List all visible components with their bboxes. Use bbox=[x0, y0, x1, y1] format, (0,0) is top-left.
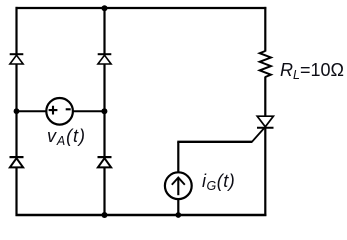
node dot bottom middle bbox=[102, 212, 108, 218]
wire current source stem bbox=[177, 142, 179, 215]
wire bottom rail bbox=[16, 214, 267, 217]
svg-text:iG(t): iG(t) bbox=[202, 171, 235, 193]
diode D4 bottom-middle triangle bbox=[98, 158, 111, 167]
diode D1 top-left triangle bbox=[10, 55, 23, 64]
voltage source vA circle bbox=[46, 98, 73, 125]
svg-text:RL=10Ω: RL=10Ω bbox=[280, 60, 344, 82]
node dot middle source row bbox=[101, 108, 107, 114]
voltage source plus mark bbox=[49, 106, 58, 115]
node dot bottom current source bbox=[175, 212, 181, 218]
diode D2 top-middle triangle bbox=[98, 55, 111, 64]
thyristor cathode bar bbox=[257, 127, 274, 129]
wire right rail upper (top corner to resistor) bbox=[264, 7, 266, 52]
voltage source minus mark bbox=[66, 108, 71, 110]
resistor RL zigzag bbox=[260, 51, 271, 77]
wire middle branch bbox=[103, 8, 105, 215]
diode D2 top-middle cathode bar bbox=[98, 53, 112, 55]
wire left rail bbox=[15, 7, 17, 216]
diode D4 bottom-middle cathode bar bbox=[98, 156, 112, 158]
thyristor SCR triangle bbox=[257, 116, 273, 127]
node dot left source row bbox=[14, 108, 20, 114]
wire source row (left rail to middle branch) bbox=[17, 110, 105, 112]
node dot top middle bbox=[102, 5, 108, 11]
current source arrow shaft bbox=[177, 178, 179, 196]
diode D3 bottom-left cathode bar bbox=[10, 156, 24, 158]
wire top rail bbox=[16, 7, 267, 9]
wire gate diagonal bbox=[252, 128, 265, 143]
current source iG circle bbox=[165, 172, 192, 199]
diode D3 bottom-left triangle bbox=[10, 158, 23, 167]
diode D1 top-left cathode bar bbox=[10, 53, 24, 55]
wire gate horizontal bbox=[177, 141, 252, 143]
wire right rail lower (resistor to bottom corner) bbox=[264, 77, 266, 217]
svg-text:vA(t): vA(t) bbox=[47, 126, 86, 148]
current source arrow barbs bbox=[172, 178, 185, 185]
